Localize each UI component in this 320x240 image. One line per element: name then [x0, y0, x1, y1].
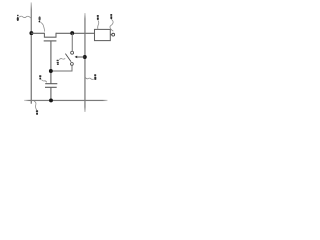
leader curve from label 43 down to transistor: [40, 22, 44, 31]
leader squiggle from bottom label up to rail: [34, 101, 37, 110]
label 46 (switch reference numeral): [57, 60, 59, 65]
terminal: output circle: [112, 33, 115, 36]
label 43 (transistor reference numeral): [39, 16, 41, 22]
leader squiggle from label 48 to left rail: [19, 16, 31, 18]
switch S1: movable arm: [65, 54, 71, 62]
wire: capacitor bottom lead to bottom rail: [50, 87, 52, 100]
leader squiggle from label 45 to right vertical: [85, 77, 94, 79]
node E: junction dot capacitor lead / bottom rail: [49, 98, 53, 102]
wire: top horizontal wire from transistor to block: [56, 32, 95, 34]
wire: top horizontal wire from node A to transistor: [31, 32, 44, 34]
switch S1: top contact circle: [71, 51, 74, 54]
wire: short lead from block to output terminal: [110, 34, 112, 36]
wire: left vertical rail: [31, 2, 32, 103]
wire: from switch bottom contact down and left to storage node: [51, 65, 72, 71]
transistor M1: source/drain contact notch: [44, 33, 56, 37]
transistor M1: gate bar: [44, 40, 57, 42]
leader squiggle from label 40 to capacitor top plate: [41, 80, 46, 83]
switch S1: bottom contact circle: [71, 63, 74, 66]
node C: storage-node junction dot: [49, 69, 53, 73]
capacitor C1: top plate: [45, 83, 57, 85]
label 44 (terminal reference numeral): [110, 14, 112, 19]
arrow from node D pointing at switch: [75, 56, 85, 59]
node D: junction dot on right vertical at pointer arrow: [83, 55, 87, 59]
wire: right vertical line: [84, 13, 85, 112]
block U1: rectangle on the right: [95, 29, 111, 40]
node B: junction dot on top wire above switch: [70, 31, 74, 35]
node A: junction dot at left rail / top wire: [29, 31, 33, 35]
label 42b (bottom rail reference numeral): [36, 110, 38, 114]
wire: gate lead down to storage node and capacitor: [50, 41, 52, 83]
label 40 (capacitor reference numeral): [39, 75, 41, 79]
leader squiggle from label 42 down to block: [98, 20, 99, 29]
wire: branch from node B down to switch top contact: [71, 33, 73, 51]
label 42 (block reference numeral): [97, 15, 99, 20]
label 48 (top-left reference numeral): [17, 15, 19, 21]
capacitor C1: bottom plate: [45, 86, 57, 88]
label 45 (right vertical reference numeral): [94, 74, 96, 80]
leader squiggle from label 46 to switch arm: [59, 58, 65, 59]
wire: bottom horizontal rail: [24, 100, 108, 101]
leader squiggle from label 44 down to terminal: [110, 19, 113, 31]
